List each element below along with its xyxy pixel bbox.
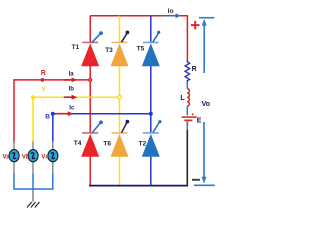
wire: T1/T4 column (red) between T1 anode and T4 cathode: [89, 66, 91, 133]
wire: T3/T6 column (yellow) between T3 anode and T6 cathode: [119, 66, 121, 133]
battery E: [182, 113, 197, 125]
arrow Io on top bus (blue): [163, 13, 180, 18]
svg-text:T2: T2: [139, 141, 147, 148]
thyristor T4: [81, 120, 103, 156]
svg-text:R: R: [192, 66, 197, 73]
wire: top bus (positive rail) red: [90, 16, 187, 62]
svg-text:E: E: [197, 117, 202, 124]
arrow Ia: [64, 78, 77, 83]
arrow Ic: [56, 111, 73, 116]
thyristor T3: [111, 31, 130, 67]
svg-text:Va: Va: [3, 154, 11, 160]
node dot on Y corner: [31, 95, 35, 99]
wire: neutral connection of sources (blue): [14, 174, 53, 189]
svg-text:T5: T5: [137, 46, 145, 53]
Vo measurement arrow bottom (down): [194, 122, 215, 185]
source Vc: [48, 142, 58, 175]
ground: [27, 189, 39, 208]
arrow Ib: [64, 95, 77, 100]
thyristor T1: [81, 31, 103, 66]
junction node R bus / T1-T4 column: [88, 78, 92, 82]
svg-text:Ia: Ia: [69, 71, 75, 77]
wire: bottom bus (negative rail) navy: [89, 185, 188, 187]
wire: dark return to bottom bus: [186, 130, 188, 186]
wire: between R and L (blue): [186, 82, 188, 89]
thyristor T2: [142, 120, 162, 157]
svg-text:T4: T4: [74, 140, 82, 147]
wire: T4 bottom stub red: [89, 157, 91, 186]
minus sign at load bottom: [192, 179, 200, 181]
thyristor T5: [142, 31, 160, 67]
node dot on B corner: [51, 112, 55, 116]
wire: phase R vertical from source Va up to corner and bus to bridge: [14, 80, 90, 142]
source Vb: [28, 142, 38, 175]
wire: T6 bottom stub yellow: [119, 157, 121, 186]
wire: T1 top stub red: [89, 16, 91, 43]
svg-text:T1: T1: [72, 44, 80, 51]
svg-text:Y: Y: [41, 86, 46, 93]
junction node B bus / T5-T2 column: [149, 112, 153, 116]
node dot on R line: [41, 78, 45, 82]
svg-text:B: B: [45, 114, 50, 121]
wire: phase B vertical from source Vc up to corner and bus to bridge: [53, 114, 151, 142]
junction ring Y bus / T3-T6 column: [118, 95, 122, 99]
wire: T2 bottom stub blue: [150, 157, 152, 186]
wire: T5 top stub blue: [150, 16, 152, 43]
svg-text:Io: Io: [168, 8, 174, 15]
resistor R coil: [185, 61, 190, 83]
svg-text:T3: T3: [105, 47, 113, 54]
svg-text:T6: T6: [103, 141, 111, 148]
wire: T5/T2 column (blue) between T5 anode and T2 cathode: [150, 66, 152, 133]
svg-text:L: L: [180, 95, 185, 102]
source Va: [9, 142, 19, 175]
svg-text:Vo: Vo: [202, 101, 210, 108]
wire: phase Y vertical from source Vb up to corner and bus to bridge: [33, 97, 120, 142]
svg-text:R: R: [41, 70, 46, 77]
plus sign at load top: [191, 21, 200, 30]
svg-text:Ib: Ib: [69, 87, 75, 93]
svg-text:Ic: Ic: [69, 105, 75, 111]
thyristor T6: [111, 120, 130, 157]
inductor L coil: [187, 89, 189, 107]
wire: between L and battery (blue): [186, 106, 188, 115]
svg-text:Vb: Vb: [22, 154, 30, 160]
wire: below battery (blue then dark): [186, 122, 188, 131]
svg-text:Vc: Vc: [41, 154, 49, 160]
wire: T3 top stub yellow: [119, 16, 121, 43]
Vo measurement arrow top (up): [199, 18, 214, 73]
